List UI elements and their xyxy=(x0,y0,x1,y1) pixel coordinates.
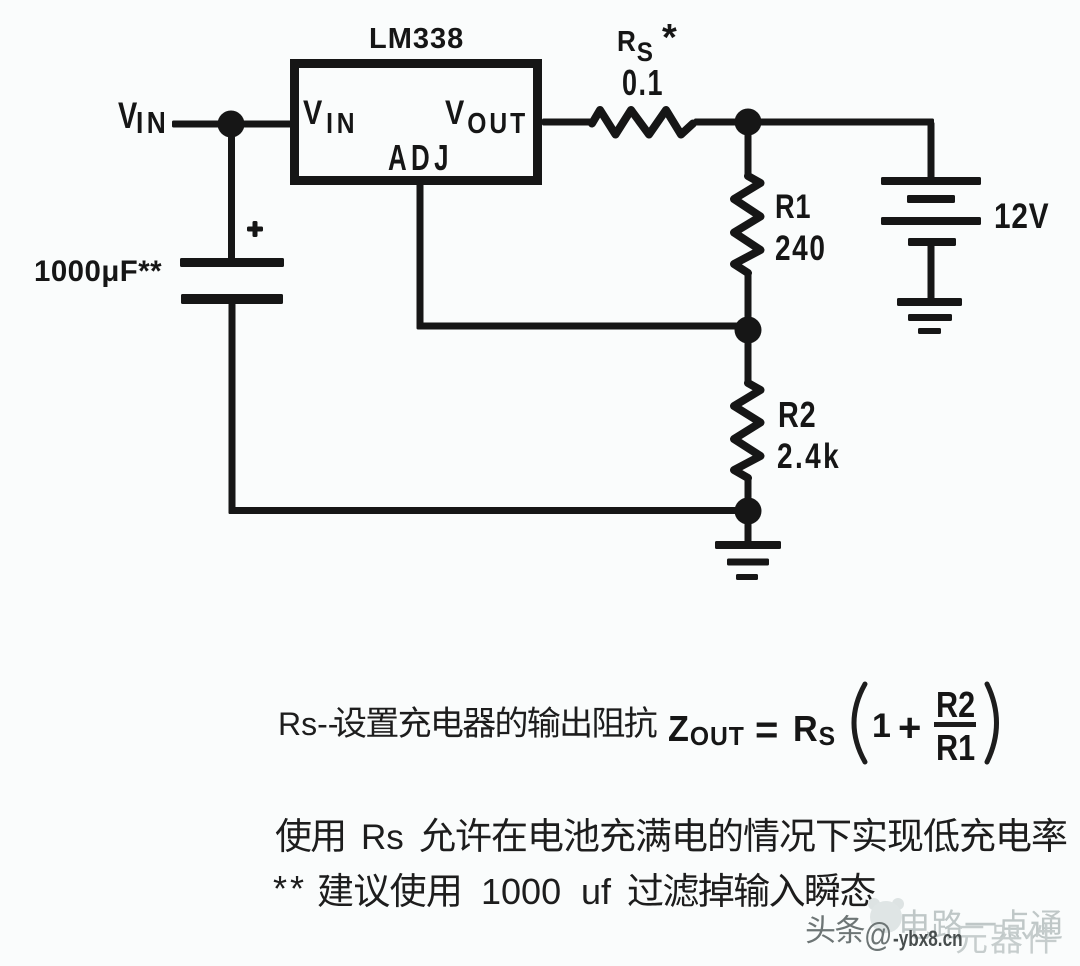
node input junction xyxy=(218,111,245,138)
svg-text:1000μF**: 1000μF** xyxy=(34,255,162,288)
note line 1 xyxy=(276,818,311,852)
svg-text:*: * xyxy=(662,17,677,59)
node ground junction xyxy=(735,498,762,525)
wire node to R1 xyxy=(745,122,752,178)
wire bottom rail xyxy=(229,507,752,514)
svg-text:R1: R1 xyxy=(936,729,975,769)
wire capacitor to bottom rail xyxy=(229,303,236,514)
wire Vin lead xyxy=(172,121,292,128)
svg-text:VIN: VIN xyxy=(303,93,358,140)
capacitor C1 1000uF plates xyxy=(180,258,284,267)
svg-text:VOUT: VOUT xyxy=(445,93,528,140)
svg-text:IN: IN xyxy=(136,106,169,140)
svg-text:**: ** xyxy=(273,868,307,909)
wire R2 to ground node xyxy=(745,478,752,514)
ground symbol battery xyxy=(897,298,962,306)
svg-text:RS: RS xyxy=(793,709,836,751)
svg-text:ADJ: ADJ xyxy=(388,138,453,178)
wire battery drop xyxy=(928,122,935,180)
wire R1 to adj junction xyxy=(745,274,752,330)
resistor RS zigzag xyxy=(592,110,693,135)
wire ADJ pin stub xyxy=(417,183,424,327)
svg-text:R2: R2 xyxy=(778,394,816,435)
wire Vout pin to Rs xyxy=(542,119,594,126)
watermark toutiao text xyxy=(807,915,835,943)
svg-text:ZOUT: ZOUT xyxy=(668,709,745,751)
node adj junction xyxy=(735,317,762,344)
svg-text:Rs: Rs xyxy=(361,818,404,857)
wire ground stem xyxy=(745,511,752,545)
svg-text:@: @ xyxy=(864,917,892,954)
svg-text:uf: uf xyxy=(581,871,612,912)
watermark logo blob xyxy=(868,898,880,910)
svg-text:V: V xyxy=(118,96,137,137)
ground symbol main xyxy=(715,541,781,549)
resistor R1 zigzag xyxy=(734,176,761,273)
battery BT1 12V plates xyxy=(881,177,981,185)
svg-text:12V: 12V xyxy=(994,197,1049,236)
svg-text:0.1: 0.1 xyxy=(622,62,664,103)
wire junction to R2 xyxy=(745,330,752,383)
wire node to capacitor xyxy=(228,130,235,260)
svg-text:240: 240 xyxy=(775,228,827,268)
resistor R2 zigzag xyxy=(734,383,761,478)
svg-text:=: = xyxy=(755,708,778,752)
formula right paren xyxy=(987,684,997,762)
svg-text:Rs--: Rs-- xyxy=(278,706,338,742)
formula left paren xyxy=(854,684,865,762)
svg-text:1: 1 xyxy=(872,707,891,745)
wire ADJ to junction xyxy=(417,323,749,330)
svg-text:LM338: LM338 xyxy=(369,23,464,55)
svg-text:RS: RS xyxy=(617,25,654,68)
svg-text:-ybx8.cn: -ybx8.cn xyxy=(893,927,963,952)
capacitor plus sign xyxy=(253,221,258,237)
svg-text:+: + xyxy=(898,706,921,750)
svg-text:R1: R1 xyxy=(775,187,811,226)
svg-text:R2: R2 xyxy=(936,686,975,726)
node output junction xyxy=(735,109,762,136)
watermark ghost text xyxy=(902,909,930,939)
op-amp U1 LM338 regulator box xyxy=(295,64,538,181)
svg-text:1000: 1000 xyxy=(481,871,561,912)
svg-text:2.4k: 2.4k xyxy=(777,436,841,476)
wire Rs to battery xyxy=(694,119,934,126)
